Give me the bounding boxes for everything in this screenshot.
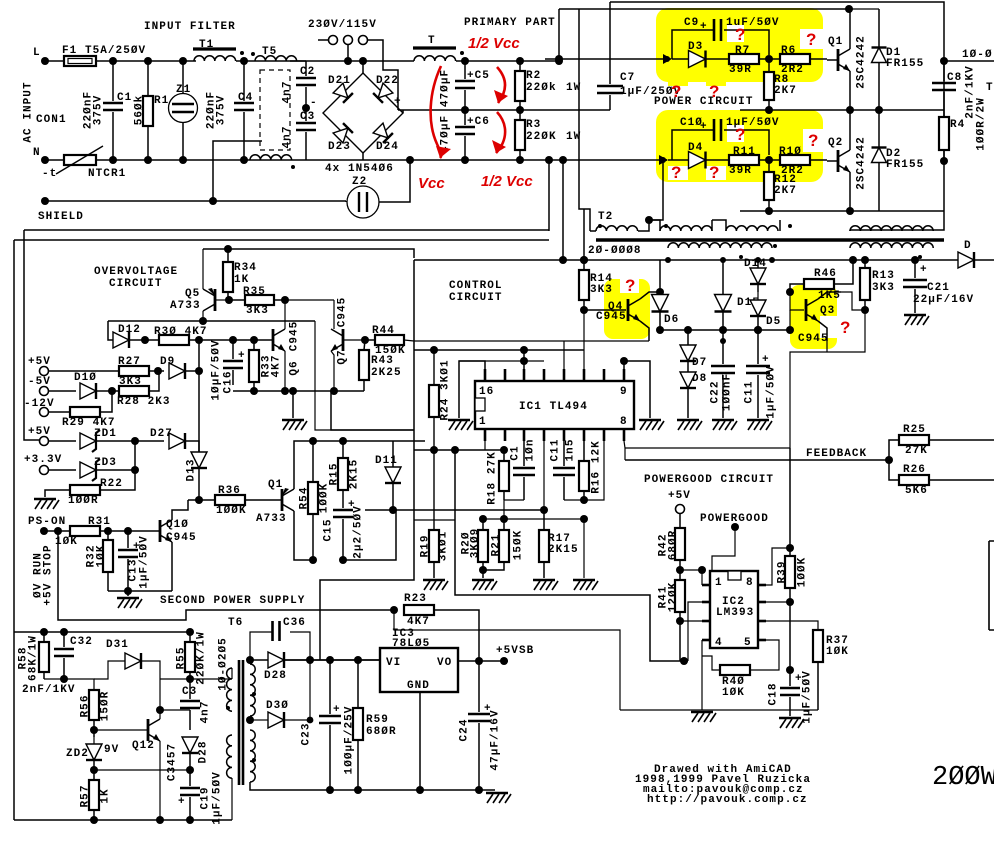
capacitor C19 xyxy=(178,770,224,825)
wire T1 to C4 xyxy=(236,60,260,62)
svg-text:47ØµF: 47ØµF xyxy=(440,69,452,107)
junction R59 top xyxy=(354,656,362,664)
junction D6 bottom xyxy=(656,326,664,334)
resistor R57 xyxy=(80,770,112,820)
svg-text:D13: D13 xyxy=(186,459,198,482)
svg-text:1ØØR: 1ØØR xyxy=(68,495,99,507)
wire frame right mid xyxy=(625,447,790,449)
wire bridge bottom xyxy=(362,153,364,160)
junction R23 left xyxy=(390,606,398,614)
pin4 label lm xyxy=(715,637,723,649)
svg-text:4x 1N54Ø6: 4x 1N54Ø6 xyxy=(325,163,394,175)
wire pin5 up xyxy=(563,341,565,369)
resistor R11 xyxy=(729,146,759,177)
junction powergood xyxy=(731,523,739,531)
pin 1 label xyxy=(479,416,487,428)
svg-text:68K/1W: 68K/1W xyxy=(28,635,40,681)
ground C18 xyxy=(779,718,804,728)
wire T6 sec mid xyxy=(250,719,262,721)
wire y519 rail xyxy=(483,518,584,520)
diode D2 xyxy=(872,110,925,211)
svg-text:1: 1 xyxy=(715,577,723,589)
junction C15 bottom xyxy=(339,556,347,564)
ground C21 xyxy=(904,315,929,325)
junction Q3 base rail xyxy=(786,326,794,334)
junction zd2 bot xyxy=(90,766,98,774)
svg-text:C15: C15 xyxy=(323,519,335,542)
label credits3 xyxy=(643,784,804,796)
query Q4 xyxy=(625,276,635,295)
svg-text:1µF/5ØV: 1µF/5ØV xyxy=(139,535,151,589)
junction R2 top xyxy=(516,57,524,65)
svg-text:?: ? xyxy=(808,131,818,150)
junction R33 top xyxy=(250,336,258,344)
junction bot2 c xyxy=(186,816,194,824)
svg-text:R1: R1 xyxy=(154,95,169,107)
wire zd2 rail xyxy=(94,769,190,771)
pin 9 label xyxy=(620,386,628,398)
resistor R54 xyxy=(299,441,331,560)
red arrow half top xyxy=(494,67,508,103)
svg-text:C11: C11 xyxy=(550,439,562,462)
svg-text:R6: R6 xyxy=(781,45,796,57)
junction sec rail e xyxy=(911,256,919,264)
junction rail260 a xyxy=(559,256,567,264)
resistor R44 xyxy=(365,325,406,357)
wire mid rail right xyxy=(740,109,944,111)
svg-text:D24: D24 xyxy=(376,141,399,153)
wire N to NTCR1 xyxy=(45,159,64,161)
transistor Q1 A733 xyxy=(245,441,313,560)
junction ZD3 out xyxy=(131,466,139,474)
junction mid right c xyxy=(875,106,883,114)
wire 2nd mid xyxy=(64,679,94,690)
svg-text:+5V: +5V xyxy=(28,356,51,368)
svg-text:D5: D5 xyxy=(766,316,781,328)
svg-text:2SC4242: 2SC4242 xyxy=(856,136,868,190)
svg-text:1Ø-Ø2Ø5: 1Ø-Ø2Ø5 xyxy=(218,637,230,691)
svg-text:ZD1: ZD1 xyxy=(94,428,117,440)
diode D30 xyxy=(262,700,310,728)
svg-text:R31: R31 xyxy=(88,516,111,528)
wire pin6 R39mid xyxy=(766,601,790,603)
svg-text:R27: R27 xyxy=(118,356,141,368)
junction Q3 base top xyxy=(786,288,794,296)
label VI xyxy=(386,657,401,669)
junction sec rail t2b xyxy=(769,257,775,263)
label PS-ON xyxy=(28,516,66,528)
capacitor C36 xyxy=(273,617,311,660)
resistor R55 xyxy=(176,631,208,685)
svg-text:C945: C945 xyxy=(337,297,349,328)
svg-text:2K15: 2K15 xyxy=(349,459,361,490)
svg-text:GND: GND xyxy=(407,680,430,692)
junction L-C1 xyxy=(109,57,117,65)
junction R2 bottom xyxy=(516,106,524,114)
transformer T2 winding 3 xyxy=(712,220,780,248)
label POWERGOOD net xyxy=(700,513,769,525)
wire frame shield A xyxy=(24,229,549,231)
svg-text:1K: 1K xyxy=(234,274,249,286)
wire T6 prim top xyxy=(231,668,233,679)
node N xyxy=(33,147,49,164)
transformer T6 label xyxy=(228,617,243,629)
svg-text:1Øn: 1Øn xyxy=(525,439,537,462)
resistor R40 xyxy=(712,640,779,699)
diode D9 xyxy=(149,356,199,379)
wire Q10 bottom rail xyxy=(108,590,172,592)
svg-text:R11: R11 xyxy=(733,146,756,158)
junction R39 mid xyxy=(786,598,794,606)
svg-text:T: T xyxy=(986,82,994,94)
wire pin8 up xyxy=(766,548,790,585)
svg-text:F1 T5A/25ØV: F1 T5A/25ØV xyxy=(62,45,146,57)
svg-text:CONTROL: CONTROL xyxy=(449,280,503,292)
label CONTROL xyxy=(449,280,503,292)
svg-text:R55: R55 xyxy=(176,647,188,670)
resistor R58 xyxy=(18,632,50,681)
svg-text:R3: R3 xyxy=(526,119,541,131)
wire D31 out xyxy=(141,661,160,710)
capacitor C21 xyxy=(903,260,974,313)
resistor R18 xyxy=(487,450,510,505)
junction shield mid xyxy=(209,197,217,205)
svg-text:3K3: 3K3 xyxy=(246,305,269,317)
capacitor C1 xyxy=(83,61,133,160)
junction R54 bottom xyxy=(309,556,317,564)
wire Q1 rail bottom xyxy=(343,510,396,560)
svg-text:C22: C22 xyxy=(710,381,722,404)
diode D27 xyxy=(135,428,199,452)
wire Q3 base xyxy=(790,292,804,310)
svg-text:+C6: +C6 xyxy=(467,116,490,128)
junction R41 bottom xyxy=(676,617,684,625)
svg-text:D28: D28 xyxy=(264,670,287,682)
svg-text:+5V: +5V xyxy=(668,490,691,502)
svg-text:D23: D23 xyxy=(328,141,351,153)
transistor Q5 A733 xyxy=(170,288,215,312)
wire ZD1-ZD3 xyxy=(134,441,136,470)
resistor R42 xyxy=(658,513,686,580)
svg-text:C2: C2 xyxy=(300,66,315,78)
svg-text:OVERVOLTAGE: OVERVOLTAGE xyxy=(94,266,178,278)
highlight Q4 xyxy=(604,279,650,339)
query D3 right xyxy=(709,82,719,101)
label 230V/115V xyxy=(308,19,377,31)
svg-text:22µF/16V: 22µF/16V xyxy=(913,294,974,306)
junction C23 top xyxy=(326,656,334,664)
junction Q12 c xyxy=(156,706,164,714)
diode D12 xyxy=(113,324,145,348)
ground R19 xyxy=(423,580,448,590)
junction Q5-D12 node xyxy=(199,317,207,325)
varistor Z1 xyxy=(169,61,198,160)
diode D23 xyxy=(328,123,353,153)
label 10-0205 xyxy=(218,637,230,691)
wire pin2 R41 xyxy=(680,620,702,622)
junction T2 p1 xyxy=(645,216,653,224)
junction y450 b xyxy=(451,446,459,454)
junction C5 bottom xyxy=(461,106,469,114)
pin 8 label xyxy=(620,416,628,428)
wire R14 base xyxy=(584,309,626,311)
svg-text:NTCR1: NTCR1 xyxy=(88,168,126,180)
label CON1 xyxy=(36,114,67,126)
wire loop top outer xyxy=(610,2,944,230)
diode D3 xyxy=(672,41,729,68)
svg-text:+5VSB: +5VSB xyxy=(496,645,534,657)
wire y520 xyxy=(414,519,455,521)
svg-text:4K7: 4K7 xyxy=(407,616,430,628)
resistor R6 xyxy=(759,45,827,76)
junction bot rail a xyxy=(765,207,773,215)
junction x310 top xyxy=(306,656,314,664)
svg-text:POWER CIRCUIT: POWER CIRCUIT xyxy=(654,96,753,108)
junction sec rail c xyxy=(849,256,857,264)
svg-text:C3: C3 xyxy=(300,111,315,123)
svg-text:http://pavouk.comp.cz: http://pavouk.comp.cz xyxy=(647,794,808,806)
wire Q12 emit xyxy=(159,741,161,820)
junction L-R1 xyxy=(144,57,152,65)
red label half-vcc bottom xyxy=(481,173,533,190)
svg-text:22ØK: 22ØK xyxy=(526,131,557,143)
svg-text:1ØØK: 1ØØK xyxy=(797,557,809,588)
wire x563 down xyxy=(562,160,564,260)
label 20-0008 xyxy=(588,245,642,257)
terminal PS-ON xyxy=(40,527,70,535)
svg-text:1n5: 1n5 xyxy=(565,439,577,462)
wire pin14 up xyxy=(523,350,525,369)
svg-text:Q2: Q2 xyxy=(828,137,843,149)
svg-text:15ØR: 15ØR xyxy=(100,691,112,722)
svg-text:?: ? xyxy=(735,125,745,144)
svg-text:?: ? xyxy=(709,163,719,182)
capacitor C15 xyxy=(323,499,365,560)
wire frame shield B xyxy=(14,239,549,241)
wire feedback pin xyxy=(624,441,625,460)
svg-text:C32: C32 xyxy=(70,636,93,648)
wire sec rail 660 xyxy=(284,659,380,661)
resistor R29 xyxy=(62,391,116,429)
diode D28s xyxy=(182,730,210,770)
svg-text:PS-ON: PS-ON xyxy=(28,516,66,528)
svg-text:POWERGOOD CIRCUIT: POWERGOOD CIRCUIT xyxy=(644,474,774,486)
junction R32 top xyxy=(104,527,112,535)
wire Q12 base xyxy=(94,729,148,731)
query R10 xyxy=(808,131,818,150)
svg-text:A733: A733 xyxy=(170,300,201,312)
svg-text:1ØµF/5ØV: 1ØµF/5ØV xyxy=(211,339,223,400)
label 4x 1N5406 xyxy=(325,163,394,175)
label 200W xyxy=(932,763,994,793)
red label vcc xyxy=(418,175,445,192)
wire IC3 out xyxy=(458,660,508,662)
junction R37R40 xyxy=(786,666,794,674)
junction C5 top xyxy=(461,57,469,65)
wire feedback xyxy=(625,459,889,461)
svg-text:C18: C18 xyxy=(768,683,780,706)
junction rail260 b xyxy=(580,256,588,264)
wire pin9 vcc xyxy=(624,361,650,418)
wire powergood down xyxy=(712,527,735,571)
junction q6rail a xyxy=(250,387,258,395)
svg-text:78LØ5: 78LØ5 xyxy=(392,638,430,650)
capacitor C13 xyxy=(118,531,151,591)
junction bot2 a xyxy=(90,816,98,824)
resistor R26 xyxy=(889,460,994,497)
wire psonsense xyxy=(394,610,620,710)
wire pin4 xyxy=(484,441,486,450)
junction d28 bot xyxy=(186,766,194,774)
wire ovv sense xyxy=(108,320,315,322)
svg-text:1ØK: 1ØK xyxy=(96,545,108,568)
svg-text:1/2 Vcc: 1/2 Vcc xyxy=(468,35,520,52)
junction mid right a xyxy=(765,106,773,114)
wire shield up xyxy=(213,141,262,201)
diode D22 xyxy=(373,75,399,103)
svg-text:1ØØnF: 1ØØnF xyxy=(722,373,734,411)
svg-text:ZD2: ZD2 xyxy=(66,748,89,760)
red label half-vcc top xyxy=(468,35,520,52)
svg-text:+5V STOP: +5V STOP xyxy=(43,544,55,605)
capacitor C32 xyxy=(54,632,93,679)
svg-text:D11: D11 xyxy=(375,455,398,467)
junction C23 bottom xyxy=(326,786,334,794)
svg-text:Z1: Z1 xyxy=(176,84,191,96)
wire y341 xyxy=(404,340,649,341)
svg-text:D22: D22 xyxy=(376,75,399,87)
svg-text:16: 16 xyxy=(479,386,494,398)
svg-text:8: 8 xyxy=(746,577,754,589)
wire bridge right to mid rail xyxy=(402,110,404,113)
transformer T2 secondary 2 xyxy=(850,243,933,259)
ground x584 xyxy=(573,580,598,590)
junction D14 rail xyxy=(755,257,761,263)
wire control box xyxy=(320,260,414,660)
junction D11 bottom xyxy=(389,506,397,514)
wire top rail to loop xyxy=(558,9,560,61)
terminal -12V xyxy=(24,398,70,417)
wire bottom rail 2nd xyxy=(14,819,232,821)
junction x544-y510 xyxy=(540,506,548,514)
label credits4 xyxy=(647,794,808,806)
junction L-C4 xyxy=(240,57,248,65)
query Q3 xyxy=(840,318,850,337)
query D4 right xyxy=(709,163,719,182)
svg-text:375V: 375V xyxy=(93,95,105,126)
junction R11-R10 xyxy=(765,156,773,164)
wire R55 node xyxy=(160,678,232,680)
svg-text:-t: -t xyxy=(42,168,57,180)
wire T6 sec top xyxy=(250,660,380,664)
junction C24 top xyxy=(475,657,483,665)
transistor Q7 C945 xyxy=(331,297,349,391)
wire Q6 rail drop xyxy=(331,391,414,430)
transistor Q10 C945 xyxy=(160,500,197,591)
resistor R10 xyxy=(759,146,827,177)
svg-text:9: 9 xyxy=(620,386,628,398)
capacitor C23 xyxy=(301,660,356,790)
svg-text:Q5: Q5 xyxy=(185,288,200,300)
resistor R24 xyxy=(429,350,452,450)
svg-text:C23: C23 xyxy=(301,723,313,746)
svg-text:Q12: Q12 xyxy=(132,740,155,752)
junction D5 bottom xyxy=(754,326,762,334)
resistor R59 xyxy=(353,660,397,790)
wire primary loop inner xyxy=(559,8,579,10)
svg-text:R15: R15 xyxy=(329,463,341,486)
wire x310 xyxy=(309,660,311,720)
capacitor C18 xyxy=(768,670,814,724)
svg-text:D27: D27 xyxy=(150,428,173,440)
junction drive upper xyxy=(555,55,563,63)
junction R30-right xyxy=(195,336,203,344)
capacitor C2 xyxy=(282,61,317,108)
wire Q6 bottom rail xyxy=(233,390,364,392)
svg-text:C945: C945 xyxy=(166,532,197,544)
label credits1 xyxy=(654,764,792,776)
transformer T1 label xyxy=(199,39,214,51)
junction Q5 base node xyxy=(225,296,233,304)
node L xyxy=(33,47,49,65)
transformer T2 winding 2 xyxy=(649,220,712,231)
svg-text:C9: C9 xyxy=(684,17,699,29)
wire T6 sec bot xyxy=(250,782,495,790)
resistor R15 xyxy=(313,441,361,508)
svg-text:R28 2K3: R28 2K3 xyxy=(117,396,171,408)
svg-text:15ØK: 15ØK xyxy=(513,530,525,561)
svg-text:T: T xyxy=(428,35,436,47)
junction R54 top xyxy=(309,437,317,445)
svg-text:C21: C21 xyxy=(927,282,950,294)
svg-text:D6: D6 xyxy=(664,314,679,326)
label OVERVOLTAGE xyxy=(94,266,178,278)
junction R59 bottom xyxy=(354,786,362,794)
label LM393 xyxy=(716,607,754,619)
svg-text:47µF/16V: 47µF/16V xyxy=(490,709,502,770)
junction shield left xyxy=(41,197,49,205)
wire D4 node down xyxy=(649,160,663,220)
svg-text:8: 8 xyxy=(620,416,628,428)
svg-text:D21: D21 xyxy=(328,75,351,87)
label POWERGOOD CIRCUIT xyxy=(644,474,774,486)
transistor Q4 C945 xyxy=(596,292,660,341)
svg-text:R7: R7 xyxy=(735,45,750,57)
wire R18-C1 bottom xyxy=(504,500,524,519)
svg-text:Q7: Q7 xyxy=(337,349,349,364)
junction y160 b xyxy=(559,156,567,164)
diode D1 xyxy=(849,9,924,110)
resistor R14 xyxy=(579,260,613,310)
resistor R8 xyxy=(764,59,797,110)
resistor R20 xyxy=(461,519,489,570)
svg-text:D28: D28 xyxy=(198,741,210,764)
wire pin5 R40 xyxy=(749,640,779,661)
label POWER CIRCUIT xyxy=(654,96,753,108)
resistor R41 xyxy=(658,580,686,661)
svg-text:3K3: 3K3 xyxy=(590,284,613,296)
label 0V RUN xyxy=(33,552,45,598)
svg-text:1ØØK: 1ØØK xyxy=(216,505,247,517)
svg-text:R43: R43 xyxy=(371,355,394,367)
wire Q5 base xyxy=(215,299,229,301)
label bridge plus xyxy=(394,96,402,108)
wire Z2 left xyxy=(345,201,347,202)
svg-text:T2: T2 xyxy=(598,211,613,223)
capacitor C11f xyxy=(550,439,577,500)
label bridge minus xyxy=(310,97,318,109)
svg-text:?: ? xyxy=(735,25,745,44)
